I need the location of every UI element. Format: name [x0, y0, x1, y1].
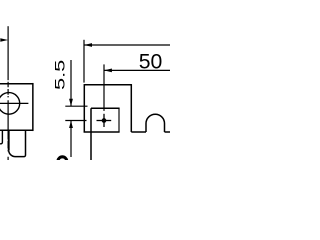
dimension 5.5: arrow pointing down [69, 99, 73, 107]
right view: hole centre mark dot [102, 118, 107, 123]
right view: centre mark horizontal arm [97, 120, 112, 122]
svg-text:5.5: 5.5 [53, 59, 68, 90]
right view: body left edge [83, 84, 85, 132]
left view: horizontal centre line of hole [0, 102, 28, 104]
left view: bracket plate right edge [32, 83, 34, 131]
cut-off text glyph at bottom edge [58, 157, 67, 161]
right view: fuse clip arch [146, 114, 165, 132]
dimension 5.5: upper extension line [65, 105, 87, 107]
right view: pad rectangle right edge [118, 108, 120, 132]
dimension 5.5: upper dimension line segment [70, 60, 72, 106]
right view: body right edge [130, 84, 132, 132]
dimension 50: lower arrow pointing left [104, 69, 112, 73]
dimension 50: extension line at hole centre [103, 64, 105, 111]
right view: bottom edge right of arch [165, 131, 172, 133]
dimension 50: lower dimension line [104, 69, 171, 71]
left view: vertical centre line solid extension above plate [7, 26, 9, 80]
right view: bottom edge of left section [84, 131, 120, 133]
left view: dimension arrow pointing right at centre line [0, 38, 8, 41]
left view: small rear tab at left edge [0, 130, 2, 144]
left view: hole circle [0, 93, 20, 115]
left view: vertical centre line dash-dot [7, 82, 9, 160]
right view: pad rectangle top edge [91, 107, 120, 109]
dimension 5.5: lower extension line [65, 120, 86, 122]
dimension 50: extension line at body left edge [83, 40, 85, 83]
left view: bracket plate bottom edge [0, 129, 33, 131]
left view: mounting tab bottom and right edges [9, 130, 26, 156]
dimension 50: upper dimension line [84, 44, 171, 46]
right view: centre mark vertical arm [103, 114, 105, 127]
right view: bottom edge right of slot [131, 131, 146, 133]
left view: mounting tab below plate [8, 130, 10, 150]
right view: pad rectangle left edge continuing below bottom [90, 108, 92, 160]
dimension 5.5: arrow pointing up [69, 121, 73, 129]
dimension 5.5: lower dimension line segment [70, 121, 72, 158]
right view: body top edge [84, 84, 131, 86]
svg-text:50: 50 [139, 50, 163, 74]
left view: bracket plate top edge [0, 83, 33, 85]
dimension 50: upper arrow pointing left [84, 43, 92, 47]
